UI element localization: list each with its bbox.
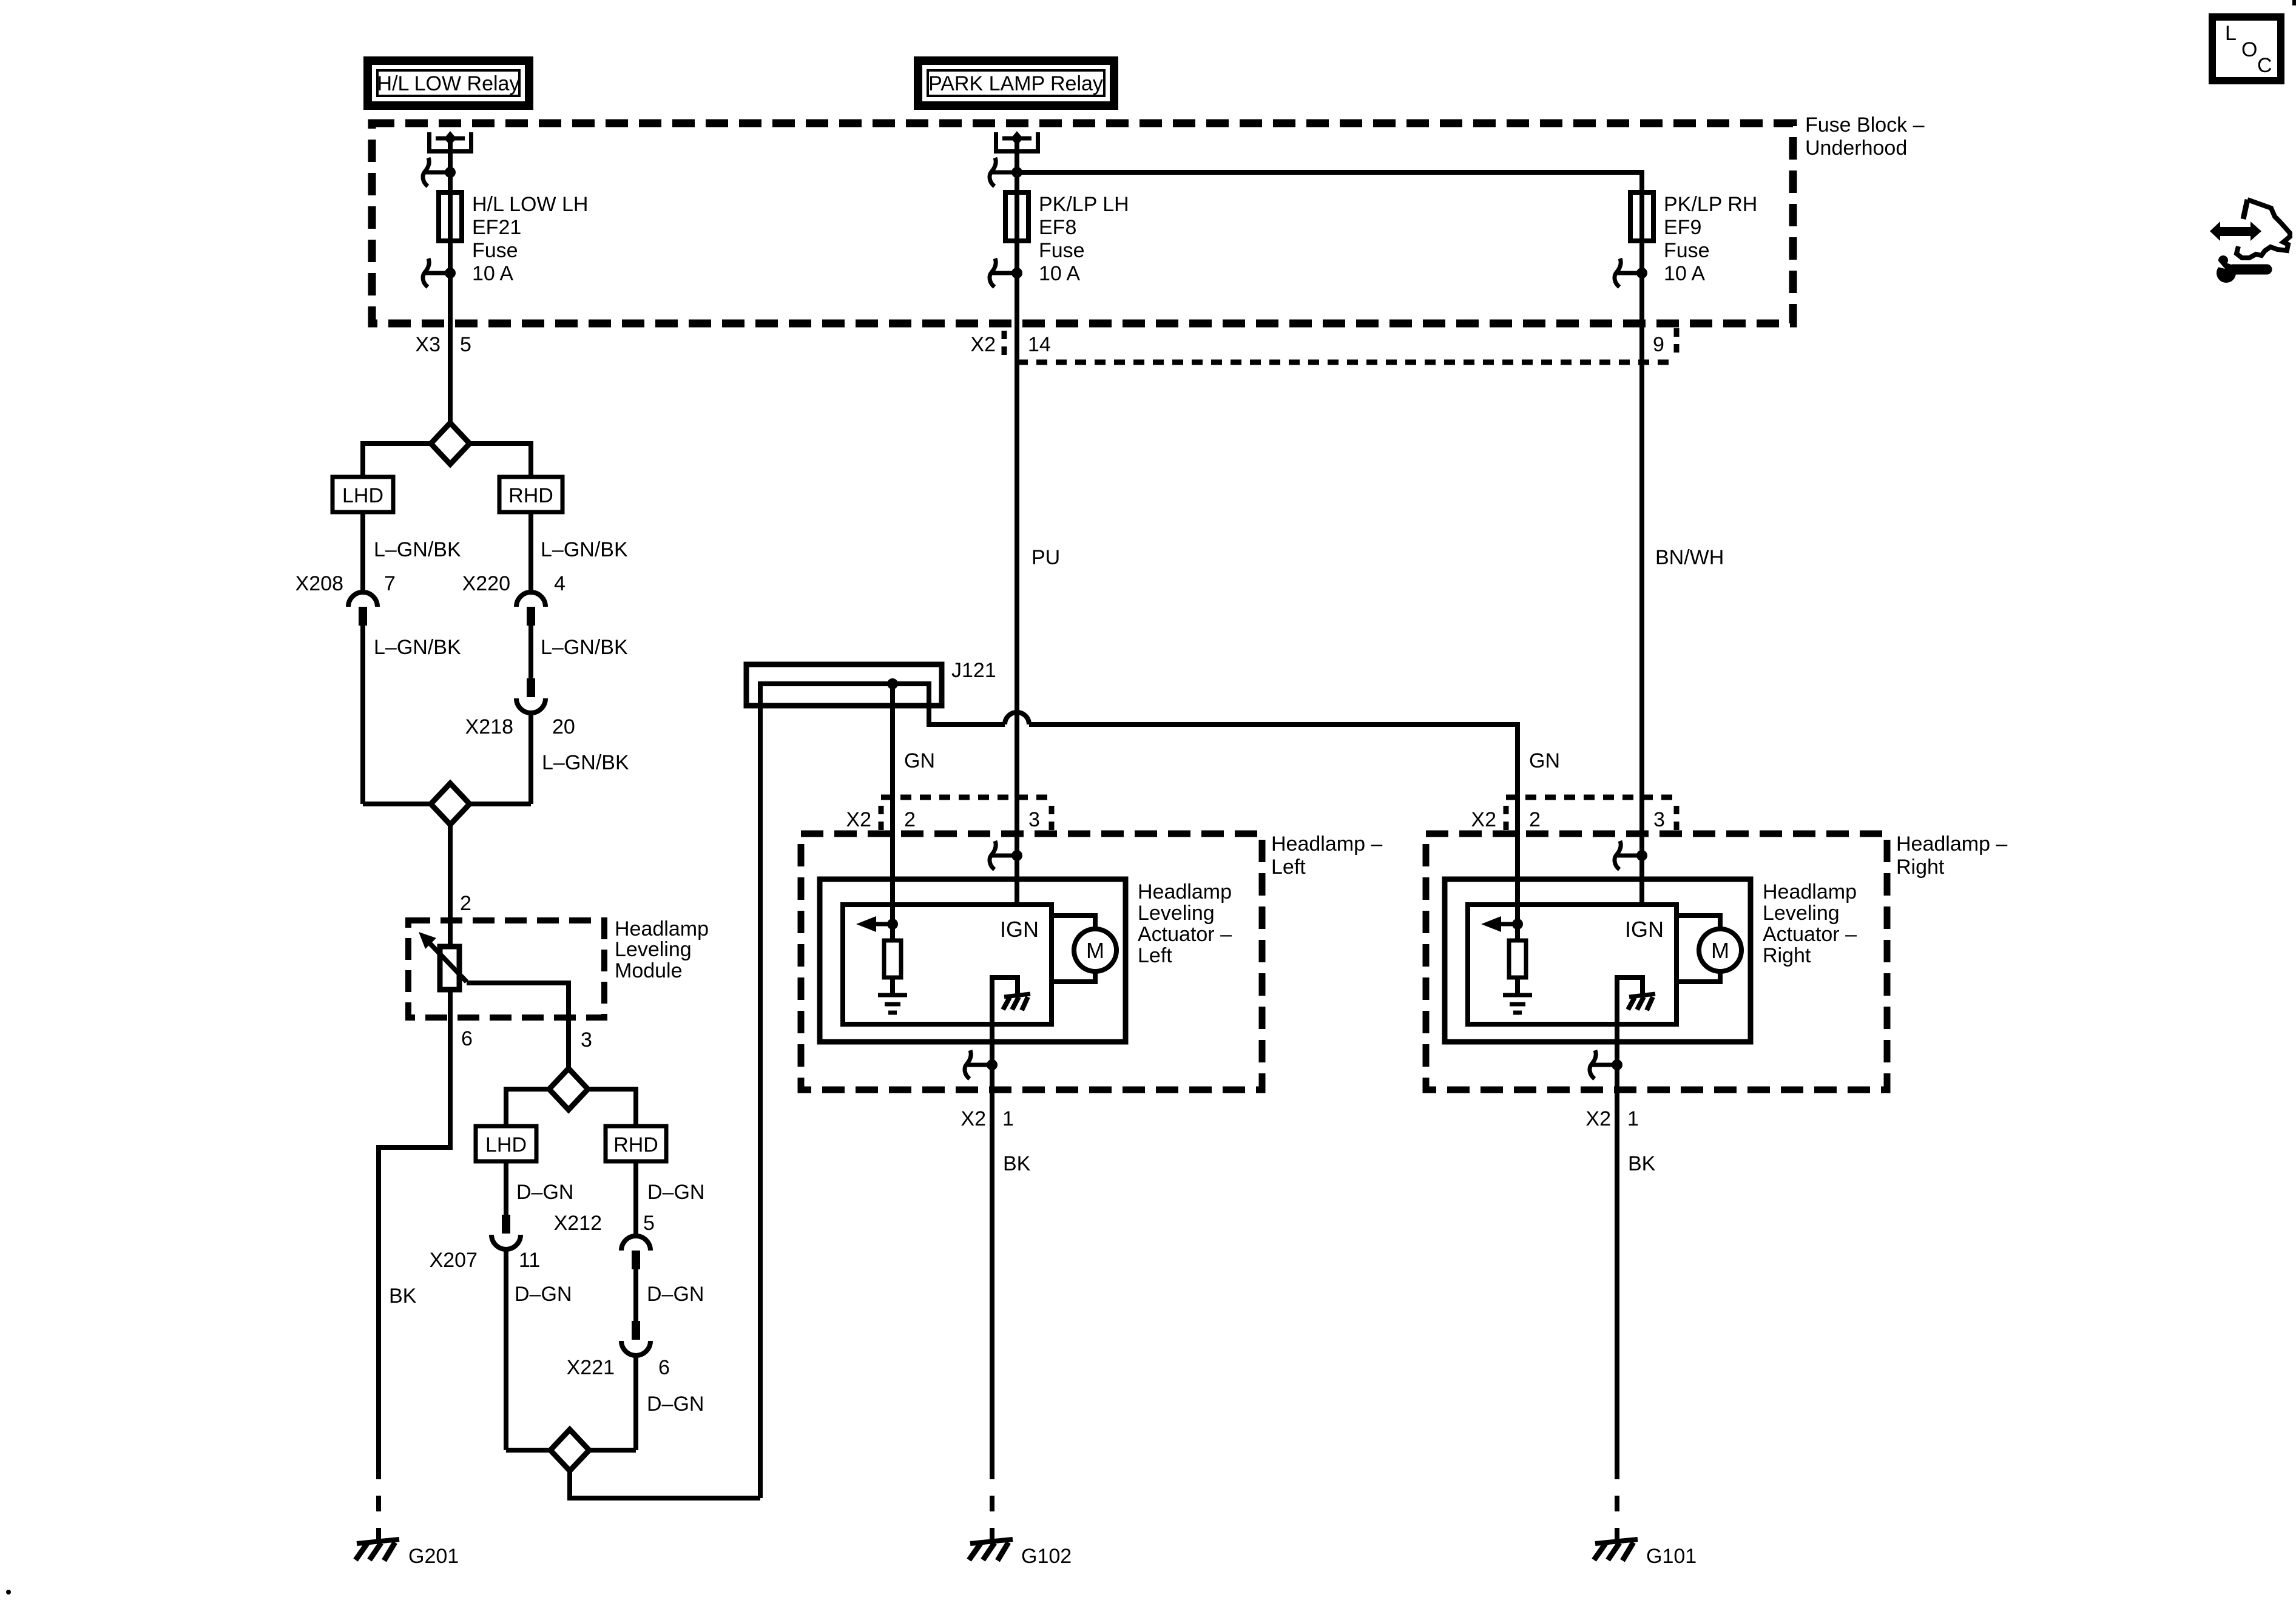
svg-text:D–GN: D–GN xyxy=(647,1181,704,1204)
svg-text:L–GN/BK: L–GN/BK xyxy=(374,538,461,561)
svg-text:EF21: EF21 xyxy=(472,216,521,239)
svg-text:X3: X3 xyxy=(415,333,441,356)
svg-text:L–GN/BK: L–GN/BK xyxy=(541,538,628,561)
svg-text:10 A: 10 A xyxy=(472,262,513,285)
svg-text:L–GN/BK: L–GN/BK xyxy=(542,751,629,774)
svg-text:10 A: 10 A xyxy=(1039,262,1080,285)
svg-text:7: 7 xyxy=(384,572,396,595)
svg-text:9: 9 xyxy=(1653,333,1664,356)
svg-text:Leveling: Leveling xyxy=(1138,902,1215,925)
svg-text:Right: Right xyxy=(1763,944,1811,967)
svg-text:5: 5 xyxy=(643,1212,655,1235)
svg-text:Fuse Block –: Fuse Block – xyxy=(1805,113,1925,137)
svg-text:Headlamp: Headlamp xyxy=(1138,880,1232,903)
svg-text:BK: BK xyxy=(389,1284,417,1308)
svg-text:5: 5 xyxy=(460,333,471,356)
svg-text:L–GN/BK: L–GN/BK xyxy=(374,636,461,659)
svg-text:L: L xyxy=(2225,22,2237,45)
svg-text:Actuator –: Actuator – xyxy=(1763,923,1857,946)
svg-text:Actuator –: Actuator – xyxy=(1138,923,1232,946)
svg-text:Module: Module xyxy=(615,959,683,982)
svg-text:6: 6 xyxy=(461,1027,473,1050)
svg-text:10 A: 10 A xyxy=(1664,262,1705,285)
svg-text:Headlamp –: Headlamp – xyxy=(1896,832,2007,856)
svg-text:Fuse: Fuse xyxy=(472,239,518,262)
svg-text:G201: G201 xyxy=(408,1545,459,1568)
svg-text:LHD: LHD xyxy=(485,1133,527,1156)
svg-text:PU: PU xyxy=(1032,546,1060,569)
svg-text:X221: X221 xyxy=(567,1356,615,1379)
svg-text:Leveling: Leveling xyxy=(1763,902,1840,925)
svg-text:EF8: EF8 xyxy=(1039,216,1076,239)
svg-text:H/L LOW LH: H/L LOW LH xyxy=(472,193,588,216)
svg-text:G101: G101 xyxy=(1646,1545,1697,1568)
svg-text:RHD: RHD xyxy=(613,1133,658,1156)
svg-text:G102: G102 xyxy=(1021,1545,1072,1568)
svg-text:C: C xyxy=(2257,54,2272,77)
svg-text:X218: X218 xyxy=(465,715,513,738)
svg-text:14: 14 xyxy=(1028,333,1051,356)
svg-text:Left: Left xyxy=(1271,856,1306,879)
svg-text:J121: J121 xyxy=(951,659,996,682)
svg-text:PK/LP LH: PK/LP LH xyxy=(1039,193,1129,216)
svg-text:3: 3 xyxy=(581,1028,592,1052)
svg-text:6: 6 xyxy=(658,1356,670,1379)
svg-text:Headlamp –: Headlamp – xyxy=(1271,832,1382,856)
svg-text:Underhood: Underhood xyxy=(1805,137,1907,160)
svg-text:11: 11 xyxy=(519,1249,540,1272)
svg-text:2: 2 xyxy=(460,892,471,915)
svg-text:PK/LP RH: PK/LP RH xyxy=(1664,193,1757,216)
svg-text:O: O xyxy=(2241,38,2257,61)
svg-text:Right: Right xyxy=(1896,856,1945,879)
svg-text:D–GN: D–GN xyxy=(515,1283,572,1306)
svg-text:X207: X207 xyxy=(430,1249,478,1272)
svg-text:X220: X220 xyxy=(462,572,510,595)
svg-text:H/L LOW Relay: H/L LOW Relay xyxy=(377,72,520,95)
svg-text:Leveling: Leveling xyxy=(615,938,692,961)
svg-text:D–GN: D–GN xyxy=(516,1181,573,1204)
svg-text:Left: Left xyxy=(1138,944,1172,967)
svg-text:PARK LAMP Relay: PARK LAMP Relay xyxy=(928,72,1103,95)
svg-text:4: 4 xyxy=(554,572,566,595)
svg-text:Fuse: Fuse xyxy=(1664,239,1710,262)
svg-text:X212: X212 xyxy=(554,1212,602,1235)
svg-text:X208: X208 xyxy=(295,572,343,595)
svg-text:RHD: RHD xyxy=(508,484,553,507)
svg-text:BN/WH: BN/WH xyxy=(1655,546,1724,569)
svg-text:EF9: EF9 xyxy=(1664,216,1701,239)
svg-text:LHD: LHD xyxy=(342,484,383,507)
svg-text:Fuse: Fuse xyxy=(1039,239,1085,262)
svg-text:Headlamp: Headlamp xyxy=(615,917,709,940)
svg-text:20: 20 xyxy=(552,715,575,738)
svg-text:Headlamp: Headlamp xyxy=(1763,880,1857,903)
svg-text:D–GN: D–GN xyxy=(647,1283,704,1306)
svg-text:X2: X2 xyxy=(970,333,996,356)
svg-text:L–GN/BK: L–GN/BK xyxy=(541,636,628,659)
svg-text:D–GN: D–GN xyxy=(647,1393,704,1416)
